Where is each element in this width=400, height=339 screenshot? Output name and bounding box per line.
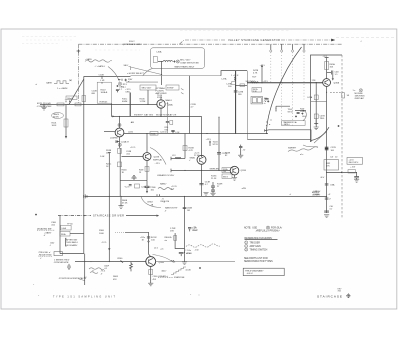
wire emitter down [150,266,152,283]
box input attenuator above line [66,96,77,100]
svg-text:Q∕45B: Q∕45B [334,82,340,85]
wire below bus [326,196,328,213]
node switch contact 1 [270,50,272,52]
wire collector Q13 [119,116,121,128]
svg-text:STAIRCASE DRIVER: STAIRCASE DRIVER [93,215,124,218]
wire box drop to line [147,90,149,104]
svg-text:ST∕11: ST∕11 [157,96,163,99]
svg-text:Q360∕: Q360∕ [159,261,165,264]
svg-text:SEC∕5417: SEC∕5417 [246,80,256,83]
ghost bleedthrough faint [22,31,290,51]
node boundary end arrow [331,39,335,41]
node junction base [316,82,317,83]
svg-text:SEMICONDUCTOR TYPES: SEMICONDUCTOR TYPES [244,261,273,263]
svg-text:MOD∕NE: MOD∕NE [355,92,364,95]
svg-text:21.5K: 21.5K [211,178,217,180]
wire collector bus [124,133,268,135]
node bracket [129,67,131,71]
wire faint top dashes [336,37,396,39]
wire contact stem 2 [281,44,283,50]
wire dashed sweep sketch [186,244,220,247]
capacitor small below line [166,122,169,123]
wire emitter down [146,161,148,181]
svg-text:OF BOARD∕: OF BOARD∕ [66,244,78,247]
node junctions [84,261,85,262]
wire inner line y129.8 [265,130,311,142]
svg-text:HORIZ∕x: HORIZ∕x [100,100,109,103]
resistor R24A on line [150,132,158,136]
wire dash-dot enclosure top [78,43,342,45]
wire faint branch y101.3 [311,100,327,102]
ground under bus [118,206,123,209]
node dot on squiggle [111,60,112,61]
box double component [251,97,263,104]
capacitor tick on line [147,237,150,238]
wire collector up [160,97,162,101]
wire light row line [126,81,158,83]
node plus at 296 [295,115,297,117]
svg-text:+GATE∕: +GATE∕ [44,231,52,234]
svg-text:SAW∕ ∕∕: SAW∕ ∕∕ [160,182,167,185]
svg-text:C47A: C47A [307,96,313,99]
svg-text:+12.5: +12.5 [206,139,212,141]
wire vertical x189 [188,76,190,134]
svg-text:x∕PH: x∕PH [242,187,247,190]
wire stem to ground [120,196,122,205]
node dot [265,101,266,102]
resistor R101 [64,119,68,127]
node plus [267,100,269,102]
wire title dash-dot branch [179,40,226,44]
wire vertical x84.7 low [84,254,86,285]
svg-text:AMP GAIN: AMP GAIN [250,245,262,248]
svg-text:+12.5: +12.5 [260,65,266,67]
wire boundary bottom y139.3 [247,138,311,140]
svg-text:∕400 ∕: ∕400 ∕ [161,269,167,272]
resistor R33B boxed [222,174,232,178]
node junction on swp bus [201,170,202,171]
wire boundary extension right [131,75,222,77]
resistor R24E [145,167,149,172]
wire contact stem 4 [303,44,305,50]
node junctions [184,170,185,171]
svg-text:ST∕SW: ST∕SW [167,87,173,90]
wire vertical x184.5 under bus [184,196,186,261]
capacitor bottom [129,185,132,186]
transistor Q30 [197,155,206,164]
node plus below [301,113,303,115]
svg-text:x0.4K: x0.4K [186,270,192,272]
node junction bus crossing [109,196,110,197]
capacitor C13E upper [211,188,215,193]
svg-text:MAIN TRAVEL ∕SEL∕∕∕: MAIN TRAVEL ∕SEL∕∕∕ [175,65,195,68]
svg-text:C60∕: C60∕ [50,241,55,244]
resistor input box 1 [57,103,64,106]
wire switch dashed 1 [270,52,272,83]
wire box corner down [110,103,112,116]
resistor R13B [183,146,187,151]
ground inverted at U bottom [131,176,136,181]
wire emitter down [119,137,121,148]
svg-text:L47A: L47A [222,77,227,80]
wire dashed branch right [330,91,342,93]
svg-text:∕2.4∕: ∕2.4∕ [194,248,199,251]
svg-text:1.21M: 1.21M [140,101,146,103]
node dot [303,110,304,111]
ground inner vertical [314,127,319,130]
test point circled plus [67,265,70,268]
node ticks above line [157,194,160,196]
wire switch dashed 3 [292,52,294,127]
svg-text:STA∕RC∕SE: STA∕RC∕SE [174,276,185,279]
node plus mark [199,267,201,269]
capacitor cluster right [188,228,191,232]
node junction dots [326,172,327,173]
capacitor C-BP [116,89,119,92]
box R132 [324,160,339,170]
svg-text:SEE PARTS LIST FOR: SEE PARTS LIST FOR [244,257,268,260]
svg-text:−12.5: −12.5 [155,163,161,165]
svg-text:SWP∕CAL: SWP∕CAL [153,159,163,162]
node junction at Q13 [119,116,120,117]
svg-text:CR60: CR60 [117,258,123,260]
resistor tick below bus [325,198,329,199]
svg-text:SEC∕: SEC∕ [124,64,129,67]
oval trace align [52,113,64,119]
svg-text:SWEEP∕: SWEEP∕ [288,147,297,150]
test point on emitter [118,143,121,146]
node left terminator [84,194,87,198]
node dot low [198,294,201,297]
svg-text:L44∕: L44∕ [302,115,306,118]
box +12.5 decoupled label [347,158,363,165]
wire arc from collector [153,255,172,262]
node tick on top edge [101,76,103,79]
svg-text:+12.5: +12.5 [130,147,136,149]
box divider network [97,82,111,103]
svg-text:∕DISPLAY∕: ∕DISPLAY∕ [354,97,365,100]
net item 3 [245,248,248,251]
wire from box down [161,62,163,86]
wire emitter down to bus [201,164,203,196]
wire main input line [40,103,157,105]
node ticks at arc end [171,260,175,262]
wire U bottom [120,179,147,181]
wire vertical from multivib line [201,116,203,157]
power +12.5 tick [325,58,329,59]
svg-text:R∕500: R∕500 [187,252,193,255]
svg-text:1M: 1M [187,210,190,212]
svg-text:17∕K: 17∕K [170,229,175,232]
wire bottom diagonal faint [314,132,327,143]
svg-text:ST∕11: ST∕11 [213,143,219,146]
svg-text:SW∕A: SW∕A [190,156,196,159]
svg-text:C24 10: C24 10 [160,132,168,134]
wire contact stem 3 [292,44,294,50]
wire dash-dot driver line [58,215,91,217]
box right enclosure [311,55,343,142]
wire arrow line [126,215,157,217]
capacitor above ground [324,211,329,212]
wire collector up [146,134,148,153]
node tick on line [121,260,124,262]
resistor bottom box [135,184,140,188]
wire corner down [356,172,358,176]
node junction low [184,252,185,253]
resistor on enclosure edge [82,96,86,102]
resistor R24C [118,162,122,167]
node junction on input line [111,104,112,105]
wire waveform squiggle 1 [85,60,110,62]
svg-text:100K: 100K [52,125,57,127]
node switch contact 3 [292,50,294,52]
svg-text:∕∕∕REFLULL∕ ∕∕ PRUSH∕ ∕∕: ∕∕∕REFLULL∕ ∕∕ PRUSH∕ ∕∕ [255,230,280,233]
wire left leg of U [119,148,121,196]
wire multivibrator bus [111,115,201,117]
svg-text:∕ ∕ +GATE ∕∕: ∕ ∕ +GATE ∕∕ [94,65,105,68]
node junction [316,101,317,102]
wire emitter to ground [234,175,236,178]
power +12.5 arrow up [209,142,211,146]
resistor on emitter [149,270,153,275]
wire branch y172.4 [327,171,357,173]
resistor input box 2 [75,103,81,106]
svg-text:C45∕: C45∕ [335,70,340,73]
transistor Q45 [323,79,331,87]
svg-text:Q13∕SW: Q13∕SW [110,136,118,139]
wire enclosure left vertical [83,76,85,253]
node left tick [170,157,172,160]
transistor Q360 [146,257,156,267]
node junction B [83,104,84,105]
svg-text:+12.5∕: +12.5∕ [171,185,177,188]
wire arc under bus [141,196,161,207]
resistor C47A [314,95,318,100]
svg-text:R44∕: R44∕ [300,107,305,110]
resistor horizontal [348,170,356,173]
node switch contact 2 [281,50,283,52]
svg-text:∕4.5∕: ∕4.5∕ [320,176,325,179]
svg-text:−12.5: −12.5 [101,242,107,244]
svg-text:CR60∕: CR60∕ [147,200,153,203]
svg-text:C24A 47: C24A 47 [121,141,130,144]
capacitor mid [265,99,269,100]
wire inner vertical x316 [315,83,317,126]
svg-text:THIS ∕ AND ∕∕: THIS ∕ AND ∕∕ [66,241,78,244]
node junction at 161 [160,116,161,117]
svg-text:CURR∕∕ ∕∕: CURR∕∕ ∕∕ [312,193,321,196]
wire stem below U [146,180,148,186]
capacitor stack below [211,182,215,189]
svg-text:Q33∕4: Q33∕4 [241,169,247,172]
capacitor tick [297,112,300,113]
box lower right component [166,85,179,90]
node junction at bus [184,196,185,197]
svg-text:∕SYNCHRO∕∕ZE∕: ∕SYNCHRO∕∕ZE∕ [53,261,69,264]
svg-text:∕∕∕ ∕∕∕∕ ∕ ∕∕∕: ∕∕∕ ∕∕∕∕ ∕ ∕∕∕ [246,272,253,275]
svg-text:R∕C∕W: R∕C∕W [151,236,157,239]
wire swp length bus [171,169,230,171]
svg-text:∕DECOUPL∕: ∕DECOUPL∕ [348,161,359,164]
inductor L40 bumps [163,60,173,61]
svg-text:100K: 100K [300,111,305,113]
svg-text:Q24∕S: Q24∕S [154,156,160,159]
wire diagonal to box corner [69,79,84,104]
net arrows near 181 [181,89,184,95]
ground x184.5 [182,262,187,265]
svg-text:L40A: L40A [157,51,162,54]
node junction at x84 [83,215,84,216]
capacitor hanging [179,253,184,257]
node tick marks above line [66,101,70,103]
wire emitter down [160,108,162,117]
wire collector Q45 [326,59,328,79]
node circle junction [148,241,150,243]
node plus mark [173,60,175,62]
wire sweep sketch right [288,147,318,152]
svg-text:C∕3A: C∕3A [330,183,335,186]
node junction dots [261,82,262,83]
node junction at 121 [120,196,121,197]
wire arc corner to column [311,127,329,140]
wire switch dashed 4 [303,52,305,100]
node junction at bus [218,133,219,134]
ground small [210,193,215,196]
node x mark [70,80,72,81]
svg-text:LINEAR∕ x∕: LINEAR∕ x∕ [158,275,168,278]
capacitor below [145,186,150,191]
resistor tick lower [325,184,329,185]
svg-text:15K: 15K [330,66,334,68]
power +12.5 arrow [261,67,263,83]
resistor thick tick on column [325,147,329,150]
node junction emitter [326,92,327,93]
wire dash-dot right of title [281,39,331,41]
svg-text:MAG∕1: MAG∕1 [166,99,173,102]
wire curve to TP [108,67,120,82]
svg-text:100: 100 [223,171,226,173]
wire TD47 branch [295,110,306,112]
wire switch dashed 2 [281,52,283,127]
node junction [147,104,148,105]
svg-text:TIMING SWITCH: TIMING SWITCH [250,250,268,252]
resistor zigzag R60F [130,262,133,272]
node bracket mark [65,238,68,246]
capacitor CR13 [217,153,221,154]
svg-text:L24∕1: L24∕1 [128,131,134,134]
svg-text:SEC∕ 5417: SEC∕ 5417 [142,87,153,90]
svg-text:= HORIZ SELECT: = HORIZ SELECT [127,73,145,75]
test point circled X [359,89,362,92]
wire square wave sketch [54,81,69,84]
node dot at top [218,117,219,118]
svg-text:SEL∕V: SEL∕V [223,176,229,179]
svg-text:1.00∕: 1.00∕ [100,155,105,158]
ground below Q33 [232,178,237,181]
resistor R40A [153,57,157,63]
svg-text:ALIGN: ALIGN [53,115,59,118]
svg-text:1 PW∕: 1 PW∕ [170,227,176,230]
svg-text:R45A: R45A [330,63,336,66]
svg-text:TYPE 1S1 SAMPLING UNIT: TYPE 1S1 SAMPLING UNIT [53,295,116,298]
wire stem down from line [65,104,67,131]
node junction [235,85,236,86]
node switch contact 4 [303,50,305,52]
box component 1 [61,225,72,230]
wire branch x185 [184,134,186,159]
svg-text:GATE∕: GATE∕ [46,81,53,84]
svg-text:604M: 604M [122,101,127,103]
svg-text:100A.B: 100A.B [101,91,108,94]
wire vertical x109 [108,153,110,262]
node diamond symbol [347,294,351,298]
transistor Q13 [115,128,124,137]
node junction A [67,104,68,105]
node junction at bus [326,196,327,197]
node junction in box [161,61,162,62]
capacitor C24A [115,141,119,142]
net curve arc right [150,148,166,165]
test point TP13 [118,82,121,85]
svg-text:SAWTOOTH∕: SAWTOOTH∕ [165,207,178,210]
svg-text:SEC ∕ 5417: SEC ∕ 5417 [180,59,191,62]
svg-text:REGUL∕: REGUL∕ [165,236,173,239]
node tick at 268 [266,133,267,134]
ground end [356,178,358,180]
test point in note [266,226,269,229]
svg-text:THE ∕∕∕∕∕ DIAGRAM∕∕ ∕: THE ∕∕∕∕∕ DIAGRAM∕∕ ∕ [245,269,264,272]
wire vertical x175 [175,233,184,249]
wire wavy sketch [89,268,104,270]
svg-text:C∕BP: C∕BP [119,86,124,89]
wire dark vertical x235.6 [235,71,237,134]
box component 2 [60,231,70,236]
svg-text:1 +12.5∕: 1 +12.5∕ [231,74,239,77]
svg-text:VALLEY STAIRCASE GENERATOR: VALLEY STAIRCASE GENERATOR [228,38,280,42]
ground Q360 [148,283,153,286]
svg-text:FOR ∕OLA∕: FOR ∕OLA∕ [271,227,282,230]
svg-text:4.7K: 4.7K [189,150,194,152]
capacitor cluster right margin [239,145,242,155]
node tick plus [338,125,340,127]
svg-text:17K∕: 17K∕ [312,79,317,82]
ground Q30 emitter leg [203,193,208,196]
wire right dashed edge [341,55,343,218]
wire waveform sketch lower right [158,188,174,190]
resistor R47A boxed [252,88,262,92]
svg-text:ST∕11: ST∕11 [288,111,294,114]
net item 2 [245,245,248,248]
node tick left end [264,129,266,131]
net mag register tick [167,103,169,134]
capacitor C13E [199,184,203,185]
svg-text:−12.5: −12.5 [124,187,130,189]
wire curve from box corner [143,68,153,76]
node contact dots on wiper [271,120,272,121]
ground input [43,104,45,107]
box transfer label [282,121,306,126]
svg-text:SWEEP GATING MULTIVIBRATOR: SWEEP GATING MULTIVIBRATOR [134,114,177,117]
capacitor end [354,177,359,178]
svg-text:C 2.4∕x: C 2.4∕x [185,249,192,252]
wire boundary jog up [221,71,247,76]
wire base feed [122,156,144,158]
wire base stub [104,131,115,133]
node left arrow [112,115,114,117]
wire dark vertical x130 [129,93,131,117]
svg-text:L24∕: L24∕ [176,131,180,134]
box timing switch enclosure [151,48,205,69]
